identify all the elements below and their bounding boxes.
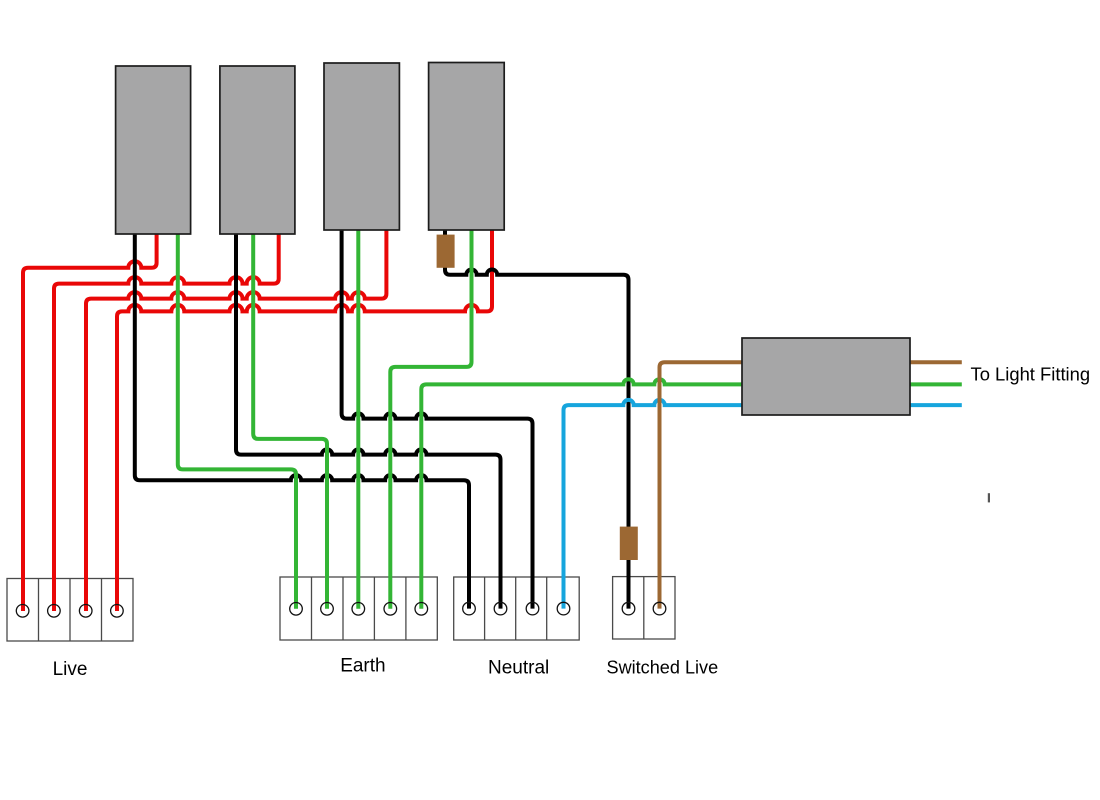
Earth terminal block [280,577,437,640]
Live pin 4 [111,605,124,618]
Live pin 1 [16,605,29,618]
wire green G2 (switch2 earth) [253,232,327,609]
wire black K3 (switch3 neutral) [342,228,533,609]
Earth pin 2 [321,603,334,616]
svg-text:Earth: Earth [340,656,385,677]
wire red R1 bus (Live pin1 to switch1 red) [23,232,157,611]
wire brown N1 (switched live to light fitting) [660,362,962,608]
wire blue B1 (neutral to light fitting) [564,400,962,609]
switch box 1 [116,66,191,234]
wire black K2 (switch2 neutral) [236,232,501,609]
Earth pin 1 [290,603,303,616]
wire red R4 bus (Live pin4 to switch4 red) [117,228,492,611]
Switched Live terminal block [613,577,675,639]
wire green G5 (earth to light fitting) [421,379,962,609]
switch box 3 [324,63,399,230]
ferrule on switch4 switched-live wire [437,235,455,268]
Neutral terminal block [454,577,580,640]
stray cursor mark [988,493,990,502]
Switched Live pin 1 [622,602,635,615]
Earth pin 4 [384,603,397,616]
wire red R2 bus (Live pin2 to switch2 red) [54,232,279,611]
Live terminal block [7,579,133,642]
Switched Live pin 2 [653,602,666,615]
Live pin 3 [79,605,92,618]
Earth pin 3 [352,603,365,616]
Live pin 2 [48,605,61,618]
switch box 2 [220,66,295,234]
wire black K4 (switch4 switched live) [445,228,629,609]
wire red R3 bus (Live pin3 to switch3 red) [86,228,386,611]
Neutral pin 3 [526,602,539,615]
svg-text:Live: Live [53,659,88,680]
ferrule above Switched Live terminal [620,527,638,560]
Neutral pin 4 [557,602,570,615]
wire black K1 (switch1 neutral) [135,232,469,609]
Neutral pin 1 [463,602,476,615]
junction box to light fitting [742,338,910,415]
Earth pin 5 [415,603,428,616]
wire green G1 (switch1 earth) [178,232,296,609]
svg-text:Neutral: Neutral [488,658,549,679]
switch box 4 [429,63,505,231]
Neutral pin 2 [494,602,507,615]
svg-text:To Light Fitting: To Light Fitting [971,364,1091,385]
wire green G4 (switch4 earth) [390,228,471,609]
wire green G3 (switch3 earth) [356,228,360,609]
svg-text:Switched Live: Switched Live [607,658,719,678]
